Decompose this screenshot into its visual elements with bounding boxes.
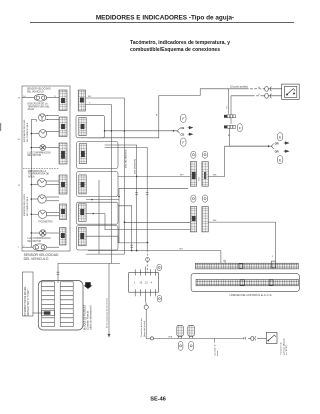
wire B4 stub a — [86, 199, 119, 201]
svg-text:cables de alimentación"): cables de alimentación") — [90, 305, 93, 330]
wire RB3 to connector group1 — [118, 175, 190, 177]
wire interruptor to fuse — [32, 312, 43, 314]
svg-text:De la resistencia del tacómetr: De la resistencia del tacómetro — [105, 297, 108, 328]
cluster edge pin labels — [18, 98, 21, 250]
wire vertical x111 down to fuse-block feed — [58, 104, 120, 283]
junction bus at branch — [173, 130, 175, 132]
label: LUZ CONFIRMACION DEL MOTOR 2 — [28, 237, 51, 243]
bus junctions — [31, 133, 33, 234]
diagnostic connector box (pin box) — [129, 273, 159, 293]
wire R/L from B1 — [86, 97, 125, 99]
break ticks on x136 — [135, 192, 148, 194]
break ticks x131 — [130, 245, 133, 247]
fuse ref oval — [237, 124, 242, 132]
connector group1 ref oval right — [203, 151, 208, 158]
svg-text:R/B: R/B — [169, 336, 173, 338]
pin box ref oval top — [157, 264, 161, 271]
ECCS connector strip row 2 — [196, 279, 298, 285]
branch BR1 wire labels CB — [180, 126, 184, 136]
svg-text:Conexión del motor: Conexión del motor — [140, 318, 143, 337]
wire fuse feed riser (Circuito auxiliar) — [229, 89, 263, 124]
rotated label consulta — [215, 343, 220, 356]
fuse F1 — [224, 115, 235, 118]
svg-text:INDICADOR DE NIVEL: INDICADOR DE NIVEL — [23, 118, 26, 142]
mini strip M1 ref oval — [178, 342, 183, 351]
branch BR2 ref oval bottom — [277, 156, 282, 164]
wire RB2 to x136 drop — [105, 145, 137, 251]
label: SENSOR VELOCIDAD DEL VEHICULO (below cluster) — [24, 253, 59, 261]
pin dots G1 — [47, 115, 48, 120]
cluster connector A2 — [59, 117, 67, 137]
harness box RB5 — [77, 226, 118, 251]
gauge G3 — [31, 178, 59, 187]
svg-text:CB: CB — [180, 132, 184, 136]
svg-text:potencia (Alojado: potencia (Alojado — [282, 337, 285, 355]
dashed section separator — [23, 167, 59, 169]
svg-text:Tacómetro, indicadores de temp: Tacómetro, indicadores de temperatura, y — [130, 40, 230, 46]
svg-text:LUZ CONFIRMACION: LUZ CONFIRMACION — [28, 151, 51, 154]
water temp gauge G1 — [39, 114, 60, 121]
ECCS connector strip row 1 — [195, 263, 298, 269]
svg-text:(Consulte "Ruta de: (Consulte "Ruta de — [87, 310, 90, 330]
junction B4 b — [93, 213, 94, 214]
title rule — [30, 22, 294, 24]
junction B4 a — [91, 199, 92, 200]
svg-text:DEL MOTOR: DEL MOTOR — [28, 241, 42, 243]
svg-text:MEDIDORES E INDICADORES -Tipo: MEDIDORES E INDICADORES -Tipo de aguja- — [96, 15, 234, 22]
terminal ring T2 — [150, 337, 153, 340]
junction bus-x136 — [136, 250, 138, 252]
harness connector B6 — [79, 227, 87, 246]
lamp L2 — [31, 230, 59, 236]
svg-text:masa: masa — [217, 350, 219, 356]
connector group2 ref oval right — [203, 195, 208, 202]
svg-text:DE COMBUSTIBLE: DE COMBUSTIBLE — [27, 196, 29, 216]
branch BR1 (CB wires to next page) — [176, 126, 192, 135]
svg-text:R/Y: R/Y — [180, 174, 184, 176]
junction RB1 edge — [104, 130, 106, 132]
cluster connector A3 — [59, 143, 67, 164]
mini strip M2 ref oval — [189, 342, 194, 351]
fuse block pointer arrow (bold) — [84, 282, 93, 289]
wire Y from B1 — [86, 103, 112, 105]
wire x131 long drop to diagnostic box — [118, 206, 132, 251]
inline connector pair CP1 — [263, 87, 282, 99]
svg-text:Transistor de: Transistor de — [280, 342, 283, 355]
ignition switch SW1 — [282, 84, 300, 99]
branch BR2 wire labels OR — [275, 141, 279, 153]
harness connector B5 — [79, 204, 87, 222]
gauge G4 — [31, 195, 59, 203]
svg-text:TACOMETRO: TACOMETRO — [38, 221, 53, 224]
svg-text:DEL MOTOR: DEL MOTOR — [28, 155, 42, 157]
inline connector symbols CP2 — [244, 336, 266, 340]
svg-text:F: F — [239, 126, 241, 130]
rotated label Transistor de potencia — [280, 337, 289, 355]
wire y188 under group1 — [119, 187, 188, 189]
main bus wire y131 to CB branch — [105, 130, 177, 132]
wire speed sensor bus y250.6 — [88, 251, 221, 264]
junction x111 bus — [111, 130, 113, 132]
active fuse (black) — [42, 310, 55, 315]
wire ring down to bottom row — [146, 309, 150, 338]
svg-text:SENSOR VELOCIDAD: SENSOR VELOCIDAD — [27, 88, 51, 91]
pin box ref oval bottom — [157, 295, 161, 302]
inline connector break on feed wire — [57, 272, 60, 274]
page title — [96, 15, 234, 22]
ECCS control unit box — [191, 274, 299, 292]
ECCS row2 marked pin 31 — [269, 280, 273, 285]
rotated label conexion a masa — [140, 318, 146, 337]
pin stubs top — [135, 267, 155, 276]
wire riser x119 — [118, 188, 120, 243]
scan artifact left edge — [0, 123, 1, 131]
wire B5 stub b — [86, 236, 148, 243]
harness box RB4 — [76, 202, 118, 224]
branch BR1 ref oval top — [181, 114, 186, 122]
svg-text:INDICADOR DE LA: INDICADOR DE LA — [28, 103, 49, 106]
pin stubs bottom — [135, 289, 155, 298]
svg-text:CB: CB — [180, 126, 184, 130]
svg-text:R/Y: R/Y — [180, 249, 184, 251]
inline connector mini strip M2 — [188, 325, 195, 338]
svg-text:AGUA: AGUA — [28, 108, 35, 111]
harness connector B2 — [79, 118, 86, 136]
svg-text:(DEL MEDIDOR): (DEL MEDIDOR) — [134, 159, 136, 174]
tachometer feed wire with arrow — [108, 263, 110, 334]
label: SENSOR VELOCIDAD DEL VEHICULO (top, inside cluster) — [27, 88, 51, 94]
inline connector mini strip M1 — [177, 325, 184, 338]
pin numbers inside pin box — [134, 282, 153, 285]
wire B5 stub — [98, 180, 100, 254]
svg-text:M20: M20 — [199, 177, 201, 181]
svg-text:MEDIDOR DE LA: MEDIDOR DE LA — [28, 170, 47, 173]
junction group2 branch — [124, 222, 126, 224]
connector group1 strip right — [202, 162, 208, 187]
junction x136 group1 wire — [136, 176, 138, 178]
svg-text:DEL VEHICULO: DEL VEHICULO — [24, 257, 49, 261]
bottom drop tick with label — [214, 338, 216, 342]
fuse column 2 — [60, 282, 73, 327]
fuse column 1 — [42, 282, 55, 327]
branch BR1 ref oval bottom — [181, 138, 186, 146]
svg-text:combustible/Esquema de conexio: combustible/Esquema de conexiones — [130, 47, 220, 53]
connector group2 strip right — [202, 207, 208, 232]
wire: circuit 5 riser — [88, 89, 263, 138]
svg-text:DIDO EN "ON" O "START": DIDO EN "ON" O "START" — [27, 289, 30, 316]
cluster connector A1 — [59, 90, 67, 111]
ignition key switch label box (INTERRUPTOR DE ENCENDIDO) — [23, 272, 34, 316]
label: MEDIDOR DE LA TEMPERATURA DE AGUA — [28, 170, 49, 179]
rotated label: MEDIDOR DEL NIVEL DE COMBUSTIBLE — [24, 193, 29, 216]
svg-text:BLOQUE DE FUSIBLES: BLOQUE DE FUSIBLES — [85, 304, 87, 330]
label: INDICADOR DE LA TEMPERATURA DEL AGUA — [28, 103, 51, 112]
connector group1 ref oval left — [191, 151, 196, 158]
subtitle — [130, 40, 230, 53]
wire group2 right to ECCS pin38 — [208, 222, 275, 261]
svg-text:F: F — [182, 117, 184, 121]
svg-text:SE-46: SE-46 — [150, 396, 166, 402]
svg-text:OR: OR — [275, 141, 279, 145]
rotated label: INDICADOR DE NIVEL DE COMBUSTIBLE — [23, 118, 29, 142]
combination meter cluster box — [22, 86, 70, 251]
footer page number SE-46 — [150, 396, 166, 402]
arrowhead down — [108, 334, 111, 338]
rotated label INTERRUPTOR DE ENCENDIDO — [25, 286, 30, 316]
wire RB2 to ground drop — [105, 147, 148, 272]
svg-text:DEL VEHICULO: DEL VEHICULO — [27, 91, 44, 93]
svg-text:en "ECM"): en "ECM") — [286, 345, 288, 355]
svg-text:LUZ CONFIRMACION: LUZ CONFIRMACION — [28, 237, 51, 240]
cluster connector A4 — [59, 175, 67, 194]
terminal ring T1 — [144, 305, 148, 309]
speedometer sensor S2 (oval with two circles) — [22, 244, 59, 251]
svg-text:OR: OR — [275, 149, 279, 153]
power transistor box Q1 — [266, 333, 277, 344]
wire B4 stub b — [86, 214, 190, 230]
junction bus-x147 — [147, 242, 149, 244]
harness box RB1 — [76, 115, 105, 138]
svg-text:TEMPERATURA DEL: TEMPERATURA DEL — [28, 105, 51, 108]
ground ring G — [146, 258, 150, 262]
tachometer gauge G5 — [31, 210, 59, 218]
ECCS row1 marked pin 8 — [239, 264, 243, 269]
svg-text:UNIDAD DE CONTROL E.C.C.S.: UNIDAD DE CONTROL E.C.C.S. — [230, 293, 273, 297]
cluster internal bus wire — [31, 120, 36, 248]
ECCS row1 pin stub — [224, 260, 226, 263]
fuse block box — [38, 281, 83, 331]
junction x131 bus — [131, 250, 133, 252]
branch BR2 (OR wires to gauges) — [268, 142, 289, 153]
harness connector B4 — [79, 175, 86, 194]
harness box RB2 — [77, 142, 118, 169]
svg-text:(Circuito auxiliar): (Circuito auxiliar) — [230, 86, 248, 89]
wire group1 right to OR branch — [208, 146, 268, 176]
label: LUZ CONFIRMACION DEL MOTOR — [28, 151, 51, 157]
svg-text:(DEL TACOMETRO): (DEL TACOMETRO) — [125, 149, 128, 168]
check engine lamp L1 — [31, 145, 59, 151]
svg-text:INTERRUPTOR DE ENCEN-: INTERRUPTOR DE ENCEN- — [25, 286, 27, 316]
wire vertical x124 down to group2 — [124, 98, 190, 254]
connector group1 strip left — [190, 162, 196, 187]
fuse F2 — [224, 125, 235, 128]
svg-text:(tierra del motor): (tierra del motor) — [143, 321, 146, 337]
cluster connector A5 — [60, 204, 67, 220]
harness box RB3 — [77, 172, 118, 197]
cluster connector A6 — [60, 228, 67, 246]
connector group2 strip left — [190, 207, 196, 232]
ECCS row1 marked pin 38 — [272, 261, 276, 268]
harness connector B3 — [79, 144, 86, 164]
harness connector B1 — [78, 90, 85, 111]
junction x119 — [118, 196, 120, 198]
ECCS row2 marked pin 24 — [240, 280, 244, 285]
wire fuse to OR branch — [230, 128, 269, 146]
speedometer sensor S1 (oval with two circles) — [22, 94, 59, 101]
svg-text:DE COMBUSTIBLE: DE COMBUSTIBLE — [27, 122, 29, 142]
bottom row wire — [154, 337, 244, 339]
rotated label BLOQUE DE FUSIBLES — [85, 304, 93, 330]
wire short lower bus y254 — [86, 253, 124, 255]
connector group2 ref oval left — [191, 195, 196, 202]
fuel gauge G2 — [31, 130, 59, 138]
svg-text:3 ·: 3 · — [226, 107, 229, 110]
svg-text:F: F — [182, 141, 184, 145]
branch BR2 ref oval top — [277, 133, 282, 141]
junction on bus y131 — [124, 130, 126, 132]
